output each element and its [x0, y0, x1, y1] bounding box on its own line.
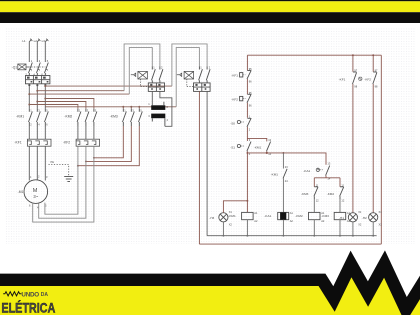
svg-text:A2: A2: [290, 219, 294, 223]
fuse block F1: [26, 76, 50, 84]
control chain wire segments on x=247.4: [246, 55, 248, 212]
tap wire L1 to Q2 loop inner: [29, 93, 129, 95]
tap wire L3 to Q3 loop: [45, 85, 172, 87]
coil KM1: [242, 212, 254, 219]
svg-text:-KA1: -KA1: [264, 214, 271, 218]
wires KF1 to motor: [29, 146, 45, 180]
svg-text:-KM1: -KM1: [254, 145, 262, 149]
circuit breaker Q1 pole 2: [37, 63, 41, 76]
tap wire L2 to Q2 loop outer: [37, 90, 124, 92]
svg-text:-KM2: -KM2: [64, 115, 72, 119]
svg-text:L1: L1: [22, 39, 26, 43]
svg-text:X1: X1: [229, 210, 233, 214]
control distribution rail: [247, 153, 326, 165]
stop pushbutton S0: [237, 118, 251, 127]
control bottom rail: [207, 235, 377, 237]
svg-text:-KM1: -KM1: [271, 173, 279, 177]
svg-text:-KA1: -KA1: [303, 169, 310, 173]
overload relay KF2: [76, 139, 100, 146]
motor M1: [24, 180, 48, 204]
tap wire L2 to KM2 pole2: [37, 102, 86, 109]
wire L2 bus down to KM1: [36, 86, 38, 109]
svg-text:-H3: -H3: [209, 216, 214, 220]
KM3 output links to motor loop verticals: [78, 126, 139, 166]
svg-text:PE: PE: [51, 160, 55, 164]
svg-text:A2: A2: [254, 219, 258, 223]
svg-text:-KM3: -KM3: [301, 192, 309, 196]
svg-text:-KF1: -KF1: [339, 78, 346, 82]
tap wire L1 to KM2 pole1: [29, 105, 78, 109]
alarm contact KF2 97-98: [373, 72, 377, 84]
interlock contact KM3 11-12: [314, 187, 318, 199]
svg-text:L2: L2: [34, 39, 38, 43]
loop wire to breaker Q3 pole1: [176, 48, 199, 107]
Q2 terminal box: [148, 83, 164, 92]
svg-text:X2: X2: [379, 223, 383, 227]
svg-text:DA: DA: [41, 292, 49, 298]
coil KM2: [309, 212, 321, 219]
wire L3 bus down to KM1: [44, 86, 46, 109]
transformer pins: [152, 102, 165, 127]
wire L3 down to Q1: [44, 44, 46, 62]
wire Q2 output to transformer primary: [151, 91, 153, 105]
interlock contact KM2 11-12: [340, 187, 344, 199]
interlock split wire: [314, 176, 340, 187]
svg-text:X1: X1: [379, 210, 383, 214]
overload contact KF1 95-96: [240, 70, 252, 79]
svg-text:A1: A1: [254, 211, 258, 215]
timed contact KA1 13-14: [326, 166, 330, 176]
motor loop wire 3: [33, 146, 94, 222]
transformer T1 winding bars: [151, 105, 165, 110]
circuit breaker Q1 pole 1: [29, 63, 33, 76]
tiny gauge glyph: [359, 77, 362, 80]
wire Q3 output to control N rail: [206, 91, 208, 235]
svg-text:-M1: -M1: [18, 190, 24, 194]
footer black bar with W zigzag: [0, 264, 420, 310]
control top rail: [247, 54, 381, 56]
lamp H1: [348, 213, 357, 222]
coil KM3: [334, 212, 346, 219]
svg-text:L3: L3: [42, 39, 46, 43]
svg-text:UNDO: UNDO: [21, 291, 39, 298]
loop wire tap L1 to breaker Q2 pole1: [129, 48, 152, 95]
logo resistor squiggle (MUNDO's M): [3, 292, 21, 296]
breaker Q3: [177, 67, 210, 83]
lamp H3: [219, 213, 228, 222]
lamp branch H1 wire: [352, 55, 354, 213]
contactor KM2: [77, 109, 97, 126]
top black band: [0, 12, 420, 23]
PE dashed link: [49, 165, 69, 177]
ground: [64, 177, 73, 182]
wire L1 bus down to KM1: [28, 86, 30, 109]
svg-text:-KF2: -KF2: [231, 97, 238, 101]
Q2 linkage dashed: [141, 79, 149, 87]
control return riser: [380, 55, 382, 244]
lamp H2: [369, 213, 378, 222]
svg-text:-KF1: -KF1: [231, 74, 238, 78]
tap wire L3 to KM2 pole3: [45, 99, 94, 109]
coil KA1 timer: [278, 212, 289, 219]
svg-text:A1: A1: [290, 211, 294, 215]
node L1 supply terminal: [29, 39, 32, 44]
footer yellow area under zigzag: [0, 264, 420, 315]
wires KM2 to KF2: [78, 126, 94, 139]
svg-text:-KM1: -KM1: [228, 214, 236, 218]
start pushbutton S1: [237, 142, 251, 152]
alarm contact KF1 97-98: [353, 72, 357, 84]
svg-text:-KM1: -KM1: [16, 115, 24, 119]
svg-text:-KM2: -KM2: [295, 214, 303, 218]
control return bottom wire: [199, 243, 381, 245]
lamp branch H2 wire: [372, 55, 374, 213]
top black stripe: [0, 0, 420, 1]
seal-in contact KM1 13-14 parallel to S1: [247, 138, 266, 153]
svg-text:-KM2: -KM2: [327, 192, 335, 196]
contactor KM3: [123, 109, 143, 126]
wire L2 down to Q1: [36, 44, 38, 62]
node L3 supply terminal: [45, 39, 48, 44]
svg-text:ELÉTRICA: ELÉTRICA: [1, 299, 55, 315]
wires into coils: [314, 199, 340, 212]
fuse element marks: [27, 77, 48, 86]
svg-text:X2: X2: [358, 223, 362, 227]
breaker Q2: [131, 67, 163, 83]
svg-text:-Q1: -Q1: [12, 65, 18, 69]
loop wire tap L2 to breaker Q2 pole2: [124, 44, 160, 91]
svg-text:-H2: -H2: [362, 216, 367, 220]
svg-text:-H1: -H1: [339, 216, 344, 220]
wire L1 down to Q1: [28, 44, 30, 62]
motor loop wire 1: [45, 146, 78, 214]
top yellow band: [0, 1, 420, 12]
svg-text:-S1: -S1: [230, 146, 235, 150]
circuit breaker Q1 pole 3: [45, 63, 49, 76]
svg-text:-KM3: -KM3: [110, 115, 118, 119]
motor loop wire 2: [39, 146, 86, 218]
overload relay KF1: [27, 139, 51, 146]
svg-text:A2: A2: [321, 219, 325, 223]
svg-text:X2: X2: [229, 223, 233, 227]
tap wire to KM3 poles and Q3 loop inner: [45, 107, 176, 109]
coil bottom wires to rail: [247, 220, 340, 236]
grid dot area: [6, 27, 415, 244]
overload contact KF2 95-96: [240, 94, 252, 103]
wire Q2 output loop to transformer secondary feed: [160, 91, 172, 126]
contactor KM1: [29, 109, 49, 126]
svg-text:-KM3: -KM3: [322, 214, 330, 218]
svg-text:-KF1: -KF1: [14, 141, 21, 145]
Q1 linkage dashed: [29, 66, 46, 68]
svg-text:-S0: -S0: [230, 121, 235, 125]
svg-text:-KF2: -KF2: [364, 78, 371, 82]
node L2 supply terminal: [37, 39, 40, 44]
wires KM1 to KF1: [29, 126, 45, 139]
svg-text:3~: 3~: [33, 194, 38, 199]
svg-text:X1: X1: [358, 210, 362, 214]
breaker Q1 actuator box: [18, 64, 29, 70]
svg-text:-KF2: -KF2: [63, 141, 70, 145]
Q3 terminal box: [194, 83, 211, 92]
wire Q3 output return line: [198, 91, 200, 244]
Q3 linkage dashed: [187, 79, 194, 87]
loop wire tap L3 to breaker Q3 pole2: [172, 44, 207, 86]
aux contact KM1 23-24 branch: [282, 153, 284, 213]
